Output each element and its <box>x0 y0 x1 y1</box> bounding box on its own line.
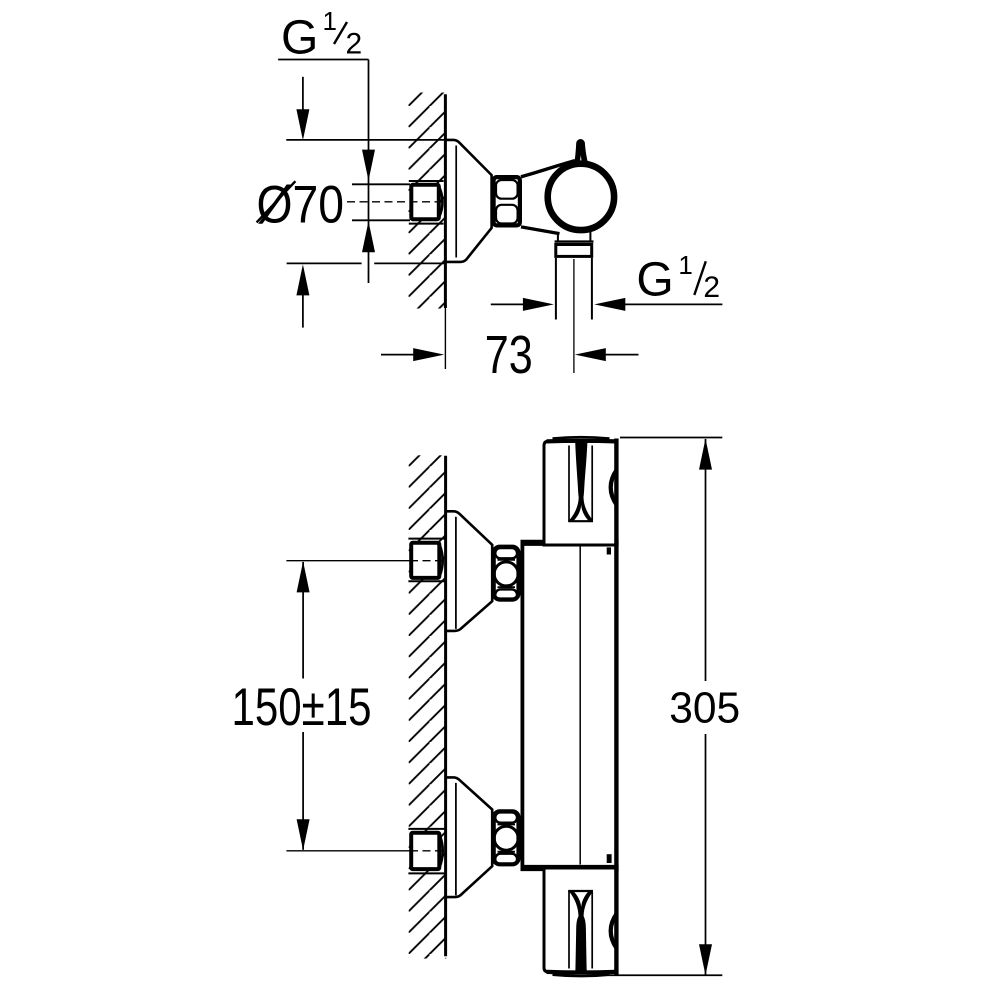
bottom union square nut <box>411 833 439 869</box>
dim G1/2 (outlet) arrows <box>491 303 524 305</box>
svg-text:305: 305 <box>669 683 740 732</box>
body right edge (shared with caps) <box>614 439 618 976</box>
wall surface edge (bottom view) <box>444 456 447 956</box>
body inner line <box>579 547 581 865</box>
escutcheon cone C3 (bottom union) <box>446 777 492 897</box>
wall hatch (top view) <box>409 93 446 309</box>
dim 150±15 <box>302 562 304 679</box>
wall union square nut <box>411 185 439 219</box>
hex nut N3 (bottom union) <box>494 811 519 864</box>
bottom cap funnel decoration <box>569 892 593 971</box>
top cap side knob arc <box>611 470 617 505</box>
dim 305 <box>620 437 722 439</box>
dim arrows for diameter 70 <box>302 77 304 111</box>
outlet neck <box>557 233 559 242</box>
top cap (shower head cap) <box>544 441 616 545</box>
svg-text:2: 2 <box>703 271 720 304</box>
top union square nut <box>411 543 439 578</box>
supply pipe stub in wall <box>352 183 410 185</box>
svg-text:2: 2 <box>346 28 363 61</box>
svg-text:Ø70: Ø70 <box>257 175 345 234</box>
top union flange lines <box>408 538 444 540</box>
wall surface extension line for 73 <box>444 308 446 369</box>
bottom cap side knob arc <box>611 913 617 948</box>
hex nut N1 <box>494 177 520 225</box>
extension line diameter70 top <box>286 139 445 141</box>
outlet pipe centerline <box>573 259 575 373</box>
mixer body <box>522 543 616 868</box>
union flange lines <box>409 180 444 182</box>
supply pipe centerline (dashed) <box>347 201 446 203</box>
body screw marks <box>607 547 611 554</box>
top cap inner verticals <box>568 446 570 522</box>
bottom cap inner verticals <box>568 891 570 969</box>
dim 73 arrows <box>381 354 414 356</box>
bottom union flange lines <box>408 828 444 830</box>
leader line under G 1/2 <box>278 59 368 61</box>
valve body bottom edge <box>521 227 560 234</box>
shower outlet pipe <box>555 258 557 320</box>
top cap funnel decoration <box>569 442 593 520</box>
escutcheon cone C1 <box>445 140 491 262</box>
svg-text:150±15: 150±15 <box>232 678 372 737</box>
wall surface edge (top view) <box>444 94 447 308</box>
extension line diameter70 bottom <box>287 262 362 264</box>
thermostat dial circle <box>548 164 614 230</box>
bottom cap <box>544 868 616 972</box>
union dome arc <box>439 187 443 218</box>
cone base line <box>455 146 457 258</box>
temperature knob stem <box>574 139 589 167</box>
svg-text:G: G <box>636 254 673 307</box>
escutcheon cone C2 (top union) <box>446 511 492 631</box>
dim line G1/2 vertical <box>368 60 370 284</box>
bottom union centerline <box>286 850 410 852</box>
svg-text:73: 73 <box>485 326 533 385</box>
svg-text:1: 1 <box>323 6 337 36</box>
top union centerline <box>286 560 410 562</box>
hex nut N2 (top union) <box>494 547 519 600</box>
svg-text:G: G <box>281 12 318 65</box>
wall hatch (bottom view) <box>409 455 447 958</box>
valve body top edge <box>521 161 575 177</box>
outlet locknut <box>556 245 592 257</box>
svg-text:1: 1 <box>678 250 692 280</box>
